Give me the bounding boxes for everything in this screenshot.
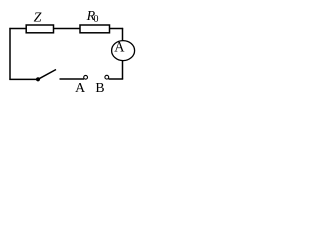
switch S pivot dot [36, 77, 40, 81]
svg-text:A: A [114, 40, 125, 56]
wire left vertical [9, 28, 11, 80]
svg-text:0: 0 [94, 14, 99, 25]
wire top horizontal [9, 28, 123, 30]
terminal B [105, 75, 109, 79]
wire switch to terminal A [60, 78, 85, 80]
switch S blade [38, 70, 56, 80]
terminal A [84, 75, 88, 79]
resistor R0 [80, 25, 110, 33]
svg-text:Z: Z [34, 10, 42, 25]
svg-text:B: B [95, 80, 104, 95]
wire bottom left [9, 78, 38, 80]
resistor Z [26, 25, 53, 33]
ammeter A [112, 41, 135, 61]
svg-text:A: A [75, 80, 85, 95]
wire right vertical [122, 28, 124, 80]
wire terminal B to corner [109, 78, 124, 80]
